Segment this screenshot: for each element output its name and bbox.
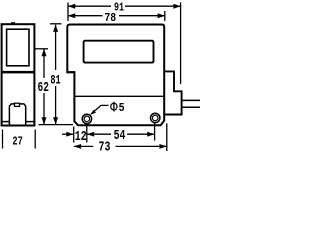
dim 54 arrow left <box>87 132 94 137</box>
dim 73 arrow right <box>159 144 166 149</box>
svg-text:81: 81 <box>50 72 60 87</box>
phi5 leader arrow <box>91 110 97 115</box>
dim 62 line <box>43 49 45 124</box>
dim 78 arrow right <box>158 13 165 18</box>
front view divider <box>74 95 164 97</box>
side view boss notch <box>15 103 20 106</box>
phi5 label <box>111 103 117 110</box>
svg-text:5: 5 <box>119 102 125 115</box>
side view floor line <box>2 121 35 123</box>
cable lower line <box>182 106 200 108</box>
dim 62 top tick <box>35 48 48 50</box>
dim 62 arrow down <box>42 117 47 124</box>
cable upper line <box>182 99 200 101</box>
dim 91 arrow right <box>173 4 180 9</box>
dim 81 line <box>55 25 57 125</box>
dim 73 line <box>74 145 167 147</box>
dim 73 arrow left <box>74 144 81 149</box>
side view top tab <box>11 22 15 24</box>
dim 27 extension line right <box>34 130 36 149</box>
hole left extension line <box>86 124 88 143</box>
dim 91 arrow left <box>68 4 75 9</box>
dim 78 line <box>68 15 165 17</box>
side view outer body <box>2 24 35 125</box>
dim 54 arrow right <box>147 132 154 137</box>
svg-text:12: 12 <box>75 129 87 145</box>
side view divider <box>1 71 35 74</box>
bottom extension for 62/81 <box>39 124 74 126</box>
dim 12 extension line left <box>73 127 75 143</box>
cable gland and bracket <box>164 71 181 114</box>
dim 81 top tick <box>50 23 62 25</box>
hole right extension line <box>154 123 156 141</box>
phi5 leader line <box>91 105 109 114</box>
dim 78 extension tick <box>164 11 166 21</box>
svg-text:73: 73 <box>99 139 111 155</box>
dim 91/78 extension line left <box>67 3 69 22</box>
dim 54 line <box>87 133 155 135</box>
front view display window <box>84 41 154 63</box>
svg-text:54: 54 <box>114 128 126 144</box>
dim 12 outside arrow <box>62 133 74 135</box>
dim 91 line <box>68 5 181 7</box>
side view lens window <box>7 29 29 66</box>
dim 62 arrow up <box>42 49 47 56</box>
dim 27 extension line left <box>2 130 4 149</box>
svg-text:62: 62 <box>38 80 49 96</box>
dim 73 extension line right <box>166 123 168 151</box>
mounting hole right <box>151 113 160 122</box>
mounting hole left <box>82 114 91 123</box>
dim 81 arrow up <box>53 25 58 32</box>
svg-text:27: 27 <box>12 136 22 149</box>
svg-text:78: 78 <box>104 12 116 25</box>
side view mounting boss <box>9 104 25 126</box>
dim 91 extension line right <box>180 3 182 85</box>
front view head outline <box>67 25 164 126</box>
dim 81 arrow down <box>53 117 58 124</box>
dim 78 arrow left <box>68 13 75 18</box>
front view left jog <box>67 71 76 73</box>
